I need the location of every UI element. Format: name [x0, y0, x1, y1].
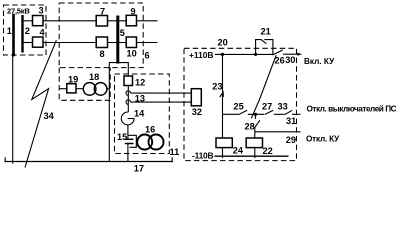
switch 9	[126, 15, 136, 25]
wire top feeder	[43, 20, 96, 22]
svg-text:16: 16	[145, 125, 155, 135]
svg-text:+110В: +110В	[189, 50, 213, 60]
wire 14 down	[127, 125, 129, 139]
wire return to rail	[12, 55, 14, 164]
svg-text:21: 21	[261, 27, 271, 37]
box B substation dashed	[59, 3, 143, 68]
switch 7	[96, 16, 107, 27]
wire 15 down to rail	[127, 144, 129, 162]
switch 3	[33, 16, 44, 26]
wire 13 upper to 32	[131, 92, 192, 94]
svg-text:32: 32	[192, 107, 202, 117]
wire 13 lower to 32	[131, 101, 192, 103]
wire feeder from bus	[109, 63, 128, 162]
coil 22	[246, 138, 262, 148]
svg-text:22: 22	[263, 146, 273, 156]
wire 19 to 18	[76, 88, 84, 90]
svg-text:3: 3	[39, 6, 44, 16]
svg-text:Вкл. КУ: Вкл. КУ	[304, 57, 335, 66]
transformer 18	[83, 83, 96, 96]
svg-text:17: 17	[134, 164, 144, 174]
svg-text:18: 18	[89, 72, 99, 82]
svg-text:8: 8	[100, 49, 105, 59]
box A 27.5kV supply dashed	[4, 5, 47, 55]
transformer 16	[137, 135, 152, 150]
link diagonal 26-28	[251, 55, 276, 118]
svg-text:13: 13	[135, 94, 145, 104]
wire 18 to feeder	[107, 88, 109, 90]
svg-text:29: 29	[286, 135, 296, 145]
svg-text:Откл. выключателей ПС: Откл. выключателей ПС	[307, 105, 397, 114]
svg-text:10: 10	[127, 49, 137, 59]
svg-text:-110В: -110В	[192, 150, 213, 160]
wire drop 23	[222, 54, 224, 114]
wire fuse down	[127, 86, 129, 113]
svg-text:14: 14	[134, 109, 145, 119]
tap arc upper 13	[126, 91, 128, 96]
wire 24 to rail	[222, 148, 224, 159]
svg-text:23: 23	[212, 82, 222, 92]
bus 5	[116, 16, 119, 64]
svg-text:12: 12	[135, 78, 145, 88]
svg-text:28: 28	[245, 122, 255, 132]
node dot right	[254, 53, 257, 56]
wire to coil 24	[222, 114, 224, 138]
wire from 10 right	[137, 42, 158, 44]
svg-text:31: 31	[286, 116, 296, 126]
svg-text:Откл. КУ: Откл. КУ	[306, 135, 340, 144]
svg-text:33: 33	[278, 102, 288, 112]
+110V rail wire 20	[215, 53, 273, 55]
capacitor 15	[125, 138, 134, 140]
junction dot	[12, 53, 15, 56]
wire exit Вкл arrow	[283, 53, 298, 55]
svg-text:11: 11	[170, 147, 180, 157]
svg-text:4: 4	[40, 28, 46, 38]
box D dashed label 11	[115, 74, 170, 154]
coil 24	[216, 138, 232, 148]
wire stub 2 to 3	[24, 20, 33, 22]
fuse 12	[124, 76, 133, 86]
node dot	[254, 113, 257, 116]
contact 26 blade	[272, 50, 282, 55]
busbar 2	[21, 15, 23, 53]
wire 7 to 9	[108, 20, 127, 22]
wire exit 29	[255, 131, 301, 133]
svg-text:30: 30	[285, 55, 295, 65]
-110V rail	[215, 155, 289, 157]
arrow 23	[220, 92, 224, 97]
svg-text:24: 24	[233, 146, 244, 156]
svg-text:20: 20	[218, 38, 228, 48]
arrester 14	[121, 112, 134, 125]
switch 4	[33, 37, 44, 47]
contact 28	[254, 114, 256, 119]
wire stub to 19	[59, 88, 67, 90]
switch 8	[96, 37, 107, 48]
switch 19	[67, 84, 76, 93]
box E control dashed	[184, 48, 297, 160]
svg-text:5: 5	[120, 28, 125, 38]
svg-text:27,5кВ: 27,5кВ	[7, 7, 30, 16]
wire 22 to rail	[254, 148, 256, 159]
box C dashed	[59, 68, 110, 101]
svg-text:7: 7	[100, 7, 105, 17]
box 32	[191, 89, 201, 106]
svg-text:1: 1	[7, 26, 12, 36]
svg-text:19: 19	[68, 75, 78, 85]
contact 25 blade	[239, 110, 247, 114]
wire to coil 22	[254, 132, 256, 138]
svg-text:34: 34	[44, 111, 55, 121]
contact 33 blade	[285, 110, 292, 114]
svg-text:2: 2	[25, 26, 30, 36]
svg-text:9: 9	[131, 7, 136, 17]
tap arc lower 13	[126, 100, 128, 105]
svg-text:25: 25	[234, 102, 244, 112]
wire 8 to 10	[108, 42, 127, 44]
lightning 34 contact line	[25, 40, 56, 167]
svg-text:6: 6	[145, 51, 150, 61]
bracket to 16	[128, 135, 136, 147]
wire from 9 right	[137, 20, 158, 22]
contact line with 25 27 33	[223, 113, 239, 115]
rail 17	[5, 161, 173, 163]
svg-text:27: 27	[262, 102, 272, 112]
busbar 1	[12, 14, 15, 55]
contact 27 blade	[265, 110, 273, 114]
wire bottom feeder	[43, 42, 96, 44]
svg-text:15: 15	[117, 132, 127, 142]
contact 21 loop	[256, 40, 262, 55]
switch 10	[126, 37, 136, 48]
wire stub 2 to 4	[24, 42, 33, 44]
node dot left	[221, 53, 224, 56]
